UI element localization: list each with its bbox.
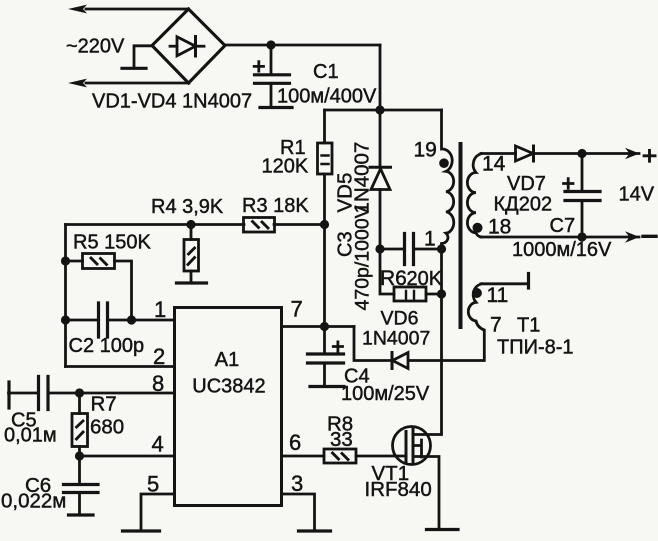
svg-text:120K: 120K [262, 156, 309, 178]
svg-text:100м/400V: 100м/400V [277, 86, 377, 108]
svg-text:33: 33 [330, 428, 353, 451]
svg-text:C7: C7 [550, 215, 576, 237]
svg-text:14V: 14V [619, 184, 655, 206]
svg-text:14: 14 [482, 153, 506, 176]
svg-text:R7: R7 [91, 393, 117, 416]
svg-text:1: 1 [154, 297, 166, 322]
svg-text:UC3842: UC3842 [192, 376, 265, 398]
svg-text:КД202: КД202 [494, 194, 553, 216]
svg-text:1N4007: 1N4007 [351, 142, 374, 214]
svg-text:680: 680 [90, 416, 124, 439]
svg-text:4: 4 [152, 432, 164, 457]
svg-text:R5 150K: R5 150K [73, 232, 151, 254]
svg-text:8: 8 [152, 371, 164, 396]
svg-text:100м/25V: 100м/25V [341, 383, 430, 405]
svg-text:VD6: VD6 [381, 308, 419, 330]
svg-text:3: 3 [291, 471, 303, 496]
svg-text:A1: A1 [215, 349, 239, 371]
svg-text:R3 18K: R3 18K [242, 195, 309, 217]
svg-text:R6: R6 [380, 267, 407, 290]
svg-text:19: 19 [414, 139, 437, 162]
svg-text:7: 7 [291, 297, 303, 322]
svg-text:5: 5 [147, 472, 159, 497]
svg-text:VD7: VD7 [507, 173, 546, 195]
svg-text:470p/1000V: 470p/1000V [352, 205, 374, 310]
svg-text:C2 100p: C2 100p [69, 335, 145, 357]
svg-text:1: 1 [424, 228, 436, 251]
svg-text:ТПИ-8-1: ТПИ-8-1 [497, 337, 574, 359]
svg-text:1000м/16V: 1000м/16V [512, 239, 612, 261]
svg-text:~220V: ~220V [66, 36, 125, 58]
svg-text:0,022м: 0,022м [1, 490, 66, 513]
svg-text:11: 11 [487, 284, 509, 307]
svg-text:R4 3,9K: R4 3,9K [151, 196, 224, 218]
svg-text:0,01м: 0,01м [4, 425, 57, 447]
svg-text:18: 18 [488, 216, 511, 239]
svg-text:IRF840: IRF840 [365, 478, 432, 501]
svg-text:6: 6 [289, 430, 301, 455]
svg-text:2: 2 [153, 344, 165, 369]
svg-text:Т1: Т1 [517, 315, 540, 337]
svg-text:C1: C1 [313, 61, 339, 83]
svg-text:1N4007: 1N4007 [362, 328, 430, 350]
svg-text:VD1-VD4 1N4007: VD1-VD4 1N4007 [92, 91, 252, 113]
svg-text:7: 7 [490, 314, 502, 337]
svg-text:20K: 20K [407, 268, 443, 290]
